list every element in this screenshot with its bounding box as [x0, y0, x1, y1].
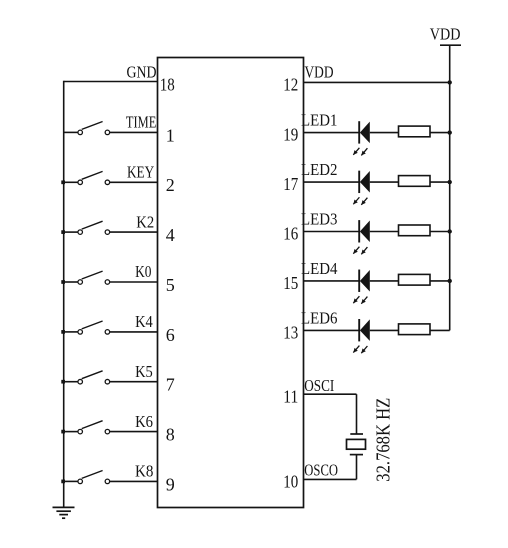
wire resistor R2 to VDD bus [430, 181, 450, 183]
wire pin 11 OSCI [304, 393, 357, 395]
junction dot on left bus at KEY row [61, 180, 65, 184]
label TIME [126, 113, 156, 132]
switch S4 (K0) [78, 271, 110, 284]
svg-text:18: 18 [160, 74, 175, 94]
wire pin 19 to LED LED1 [304, 132, 360, 134]
junction dot on left bus at K5 row [61, 380, 65, 384]
wire bus to switch S7 [64, 431, 78, 433]
svg-text:K0: K0 [135, 262, 151, 281]
svg-text:LED4: LED4 [301, 259, 338, 278]
wire resistor R3 to VDD bus [430, 231, 450, 233]
wire VDD bus vertical [449, 45, 451, 330]
wire resistor R1 to VDD bus [430, 132, 450, 134]
pin number 7 [166, 375, 175, 395]
wire bus to switch S6 [64, 381, 78, 383]
pin number 16 [283, 223, 298, 243]
wire pin 12 to VDD bus [304, 81, 450, 83]
crystal Y1 32.768K HZ [347, 434, 366, 455]
label VDD pin 12 [305, 62, 334, 81]
wire bus to switch S1 [64, 131, 78, 133]
svg-text:19: 19 [283, 125, 298, 145]
svg-text:LED1: LED1 [301, 111, 337, 130]
label LED3 [301, 210, 337, 229]
junction dot VDD bus at LED4 row [448, 279, 452, 283]
wire bus to switch S3 [64, 231, 78, 233]
wire switch S1 to pin 1 [110, 131, 158, 133]
svg-text:16: 16 [283, 223, 298, 243]
pin number 5 [166, 275, 175, 295]
resistor R5 [399, 324, 431, 335]
svg-text:OSCO: OSCO [304, 461, 338, 480]
pin number 18 [160, 74, 175, 94]
pin number 19 [283, 125, 298, 145]
wire LED LED4 to resistor [370, 280, 399, 282]
junction dot VDD bus at LED2 row [448, 180, 452, 184]
LED LED6 [353, 319, 370, 353]
wire switch S8 to pin 9 [110, 480, 158, 482]
wire LED LED1 to resistor [370, 132, 399, 134]
wire pin 17 to LED LED2 [304, 181, 360, 183]
junction dot VDD bus at LED1 row [448, 130, 452, 134]
svg-text:10: 10 [283, 472, 298, 492]
wire switch S2 to pin 2 [110, 181, 158, 183]
pin number 13 [283, 322, 298, 342]
svg-text:9: 9 [166, 474, 175, 494]
wire resistor R4 to VDD bus [430, 280, 450, 282]
wire bus to switch S5 [64, 331, 78, 333]
junction dot on left bus at K6 row [61, 430, 65, 434]
label LED1 [301, 111, 337, 130]
label K5 [135, 362, 153, 381]
label OSCO [304, 461, 338, 480]
svg-text:K6: K6 [135, 412, 153, 431]
switch S3 (K2) [78, 221, 110, 234]
resistor R2 [399, 176, 431, 187]
value label 32.768K HZ [372, 398, 394, 482]
wire LED LED2 to resistor [370, 181, 399, 183]
switch S1 (TIME) [78, 122, 110, 135]
LED LED2 [353, 171, 370, 205]
svg-text:VDD: VDD [430, 25, 461, 44]
wire crystal to OSCO [356, 455, 358, 480]
wire OSCI down to crystal [356, 394, 358, 434]
wire switch S3 to pin 4 [110, 231, 158, 233]
svg-text:7: 7 [166, 375, 175, 395]
svg-text:1: 1 [166, 125, 175, 145]
svg-text:K4: K4 [135, 312, 153, 331]
pin number 10 [283, 472, 298, 492]
svg-text:GND: GND [127, 63, 157, 82]
pin number 6 [166, 325, 175, 345]
label KEY [127, 163, 154, 182]
label K0 [135, 262, 151, 281]
svg-text:6: 6 [166, 325, 175, 345]
pin number 15 [283, 273, 298, 293]
wire switch S4 to pin 5 [110, 281, 158, 283]
switch S5 (K4) [78, 321, 110, 334]
svg-text:LED3: LED3 [301, 210, 337, 229]
resistor R1 [399, 126, 431, 137]
pin number 2 [166, 175, 175, 195]
svg-text:LED6: LED6 [301, 308, 337, 327]
svg-text:8: 8 [166, 425, 175, 445]
junction dot on left bus at K8 row [61, 480, 65, 484]
svg-text:OSCI: OSCI [304, 376, 334, 395]
svg-text:K2: K2 [136, 212, 154, 231]
wire pin 16 to LED LED3 [304, 231, 360, 233]
pin number 1 [166, 125, 175, 145]
svg-text:LED2: LED2 [301, 160, 337, 179]
pin number 9 [166, 474, 175, 494]
wire bus to switch S2 [64, 181, 78, 183]
wire switch S6 to pin 7 [110, 381, 158, 383]
IC U1 body [158, 58, 304, 508]
svg-text:K5: K5 [135, 362, 153, 381]
label K6 [135, 412, 153, 431]
label LED6 [301, 308, 337, 327]
label GND [127, 63, 157, 82]
pin number 4 [166, 225, 175, 245]
label K8 [135, 462, 153, 481]
switch S8 (K8) [78, 471, 110, 484]
svg-text:13: 13 [283, 322, 298, 342]
svg-text:5: 5 [166, 275, 175, 295]
LED LED3 [353, 220, 370, 254]
wire pin 15 to LED LED4 [304, 280, 360, 282]
junction dot VDD bus at LED3 row [448, 229, 452, 233]
wire GND pin 18 to bus [64, 81, 158, 83]
resistor R3 [399, 225, 431, 236]
VDD power symbol [430, 25, 461, 46]
label OSCI [304, 376, 334, 395]
pin number 17 [283, 174, 298, 194]
label K4 [135, 312, 153, 331]
svg-text:KEY: KEY [127, 163, 154, 182]
svg-text:TIME: TIME [126, 113, 156, 132]
svg-text:VDD: VDD [305, 62, 334, 81]
junction dot on left bus at K0 row [61, 280, 65, 284]
wire bus to switch S8 [64, 480, 78, 482]
wire switch S7 to pin 8 [110, 431, 158, 433]
svg-text:12: 12 [283, 75, 298, 95]
junction dot on left bus at K2 row [61, 230, 65, 234]
label LED4 [301, 259, 338, 278]
svg-text:15: 15 [283, 273, 298, 293]
svg-text:11: 11 [283, 386, 298, 406]
label LED2 [301, 160, 337, 179]
junction dot VDD bus pin 12 [448, 80, 452, 84]
svg-text:32.768K HZ: 32.768K HZ [372, 398, 394, 482]
ground [53, 507, 75, 518]
resistor R4 [399, 274, 431, 285]
label K2 [136, 212, 154, 231]
wire resistor R5 to VDD bus [430, 329, 450, 331]
svg-text:2: 2 [166, 175, 175, 195]
svg-text:4: 4 [166, 225, 175, 245]
switch S6 (K5) [78, 371, 110, 384]
junction dot on left bus at K4 row [61, 330, 65, 334]
LED LED1 [353, 121, 370, 155]
switch S2 (KEY) [78, 171, 110, 184]
wire bus to switch S4 [64, 281, 78, 283]
pin number 11 [283, 386, 298, 406]
switch S7 (K6) [78, 421, 110, 434]
wire LED LED3 to resistor [370, 231, 399, 233]
wire left bus vertical [63, 81, 65, 508]
wire pin 10 OSCO [304, 478, 357, 480]
svg-text:17: 17 [283, 174, 298, 194]
LED LED4 [353, 270, 370, 304]
wire LED LED6 to resistor [370, 329, 399, 331]
wire pin 13 to LED LED6 [304, 329, 360, 331]
svg-text:K8: K8 [135, 462, 153, 481]
pin number 12 [283, 75, 298, 95]
wire switch S5 to pin 6 [110, 331, 158, 333]
pin number 8 [166, 425, 175, 445]
